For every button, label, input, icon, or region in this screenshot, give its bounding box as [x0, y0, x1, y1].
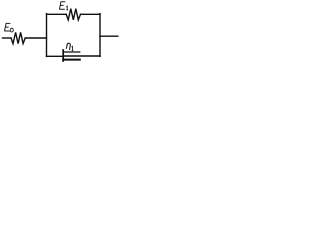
wire to node A [25, 37, 46, 39]
node A: left vertical bar of parallel block [46, 14, 48, 57]
wire bottom branch right (piston rod) [64, 55, 100, 57]
node B: right vertical bar of parallel block [99, 14, 101, 57]
label eta1 [66, 43, 73, 51]
dashpot eta1 [63, 50, 80, 61]
wire output right [100, 35, 118, 37]
wire top branch left [47, 13, 67, 15]
circuit: standard linear solid viscoelastic model [0, 0, 127, 70]
resistor E0 [11, 32, 25, 43]
wire bottom branch left [47, 55, 63, 57]
wire input left [3, 37, 12, 39]
label E1 [59, 2, 68, 10]
wire top branch right [81, 13, 101, 15]
resistor E1 [66, 9, 80, 20]
label E0 [4, 23, 13, 32]
